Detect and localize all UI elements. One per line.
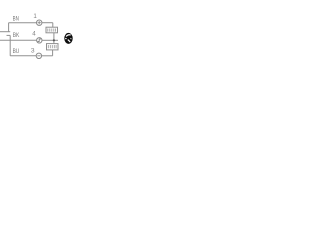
- box U2 electronics: [47, 44, 59, 50]
- wire link between boxes: [53, 33, 55, 44]
- battery B1 positive plate (to BN): [0, 31, 10, 33]
- svg-text:3: 3: [31, 48, 35, 55]
- svg-text:BN: BN: [13, 15, 19, 22]
- svg-text:4: 4: [32, 31, 36, 38]
- terminal circle pin 3 (-): [36, 53, 41, 58]
- box U2 hatch: [48, 45, 56, 48]
- wire BU to box: [42, 55, 53, 57]
- logo ball icon: [64, 33, 72, 44]
- wire BN row: [9, 22, 37, 24]
- wire battery negative to BU row: [9, 35, 11, 55]
- junction node BK/column: [53, 39, 55, 41]
- box U1 electronics: [46, 27, 58, 33]
- terminal circle pin 4 (switching output): [37, 38, 42, 43]
- wire BU row: [10, 55, 36, 57]
- wire BN vertical drop: [8, 23, 10, 32]
- svg-text:BU: BU: [13, 48, 20, 55]
- wire BK row: [0, 39, 37, 41]
- svg-text:BK: BK: [13, 32, 20, 39]
- box U1 hatch: [48, 29, 56, 32]
- wire BU rise into box U2: [52, 50, 54, 56]
- svg-text:1: 1: [33, 13, 37, 20]
- wire BN drop into box U1: [52, 23, 54, 28]
- terminal circle pin 1 (+): [37, 20, 42, 25]
- wire BK to box column: [42, 39, 58, 41]
- wire BN to box: [42, 22, 53, 24]
- battery B1 negative plate: [7, 34, 11, 36]
